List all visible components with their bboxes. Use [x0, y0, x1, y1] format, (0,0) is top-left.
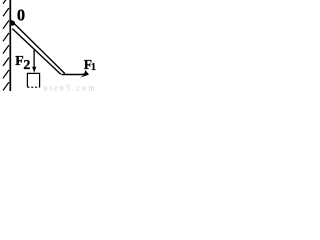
svg-text:0: 0	[17, 6, 25, 25]
svg-text:nten5.com: nten5.com	[44, 84, 97, 91]
svg-text:F: F	[15, 54, 24, 69]
svg-text:1: 1	[91, 62, 96, 73]
svg-text:2: 2	[23, 58, 30, 73]
